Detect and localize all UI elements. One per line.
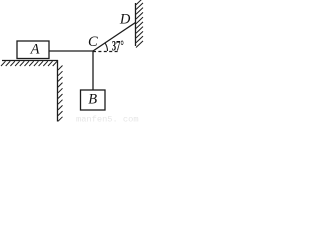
angle arc at C — [105, 43, 108, 51]
dashed reference line at C — [93, 51, 118, 53]
block B — [81, 90, 106, 110]
wall line (top right) — [135, 3, 137, 46]
svg-text:B: B — [88, 92, 97, 108]
svg-text:A: A — [30, 42, 40, 58]
table surface line — [2, 60, 58, 62]
wire rope A to C — [49, 50, 93, 52]
svg-text:D: D — [119, 11, 131, 27]
svg-text:37°: 37° — [112, 39, 124, 55]
wire rope C to D (wall) — [93, 23, 136, 52]
wall hatching — [136, 0, 143, 47]
table edge hatching — [58, 66, 63, 122]
table surface hatching — [1, 61, 57, 66]
table vertical edge — [57, 60, 59, 122]
svg-text:manfen5. com: manfen5. com — [76, 115, 139, 125]
svg-text:C: C — [88, 34, 98, 50]
background — [0, 0, 144, 124]
block A — [17, 41, 49, 59]
wire rope C to B — [92, 51, 94, 90]
